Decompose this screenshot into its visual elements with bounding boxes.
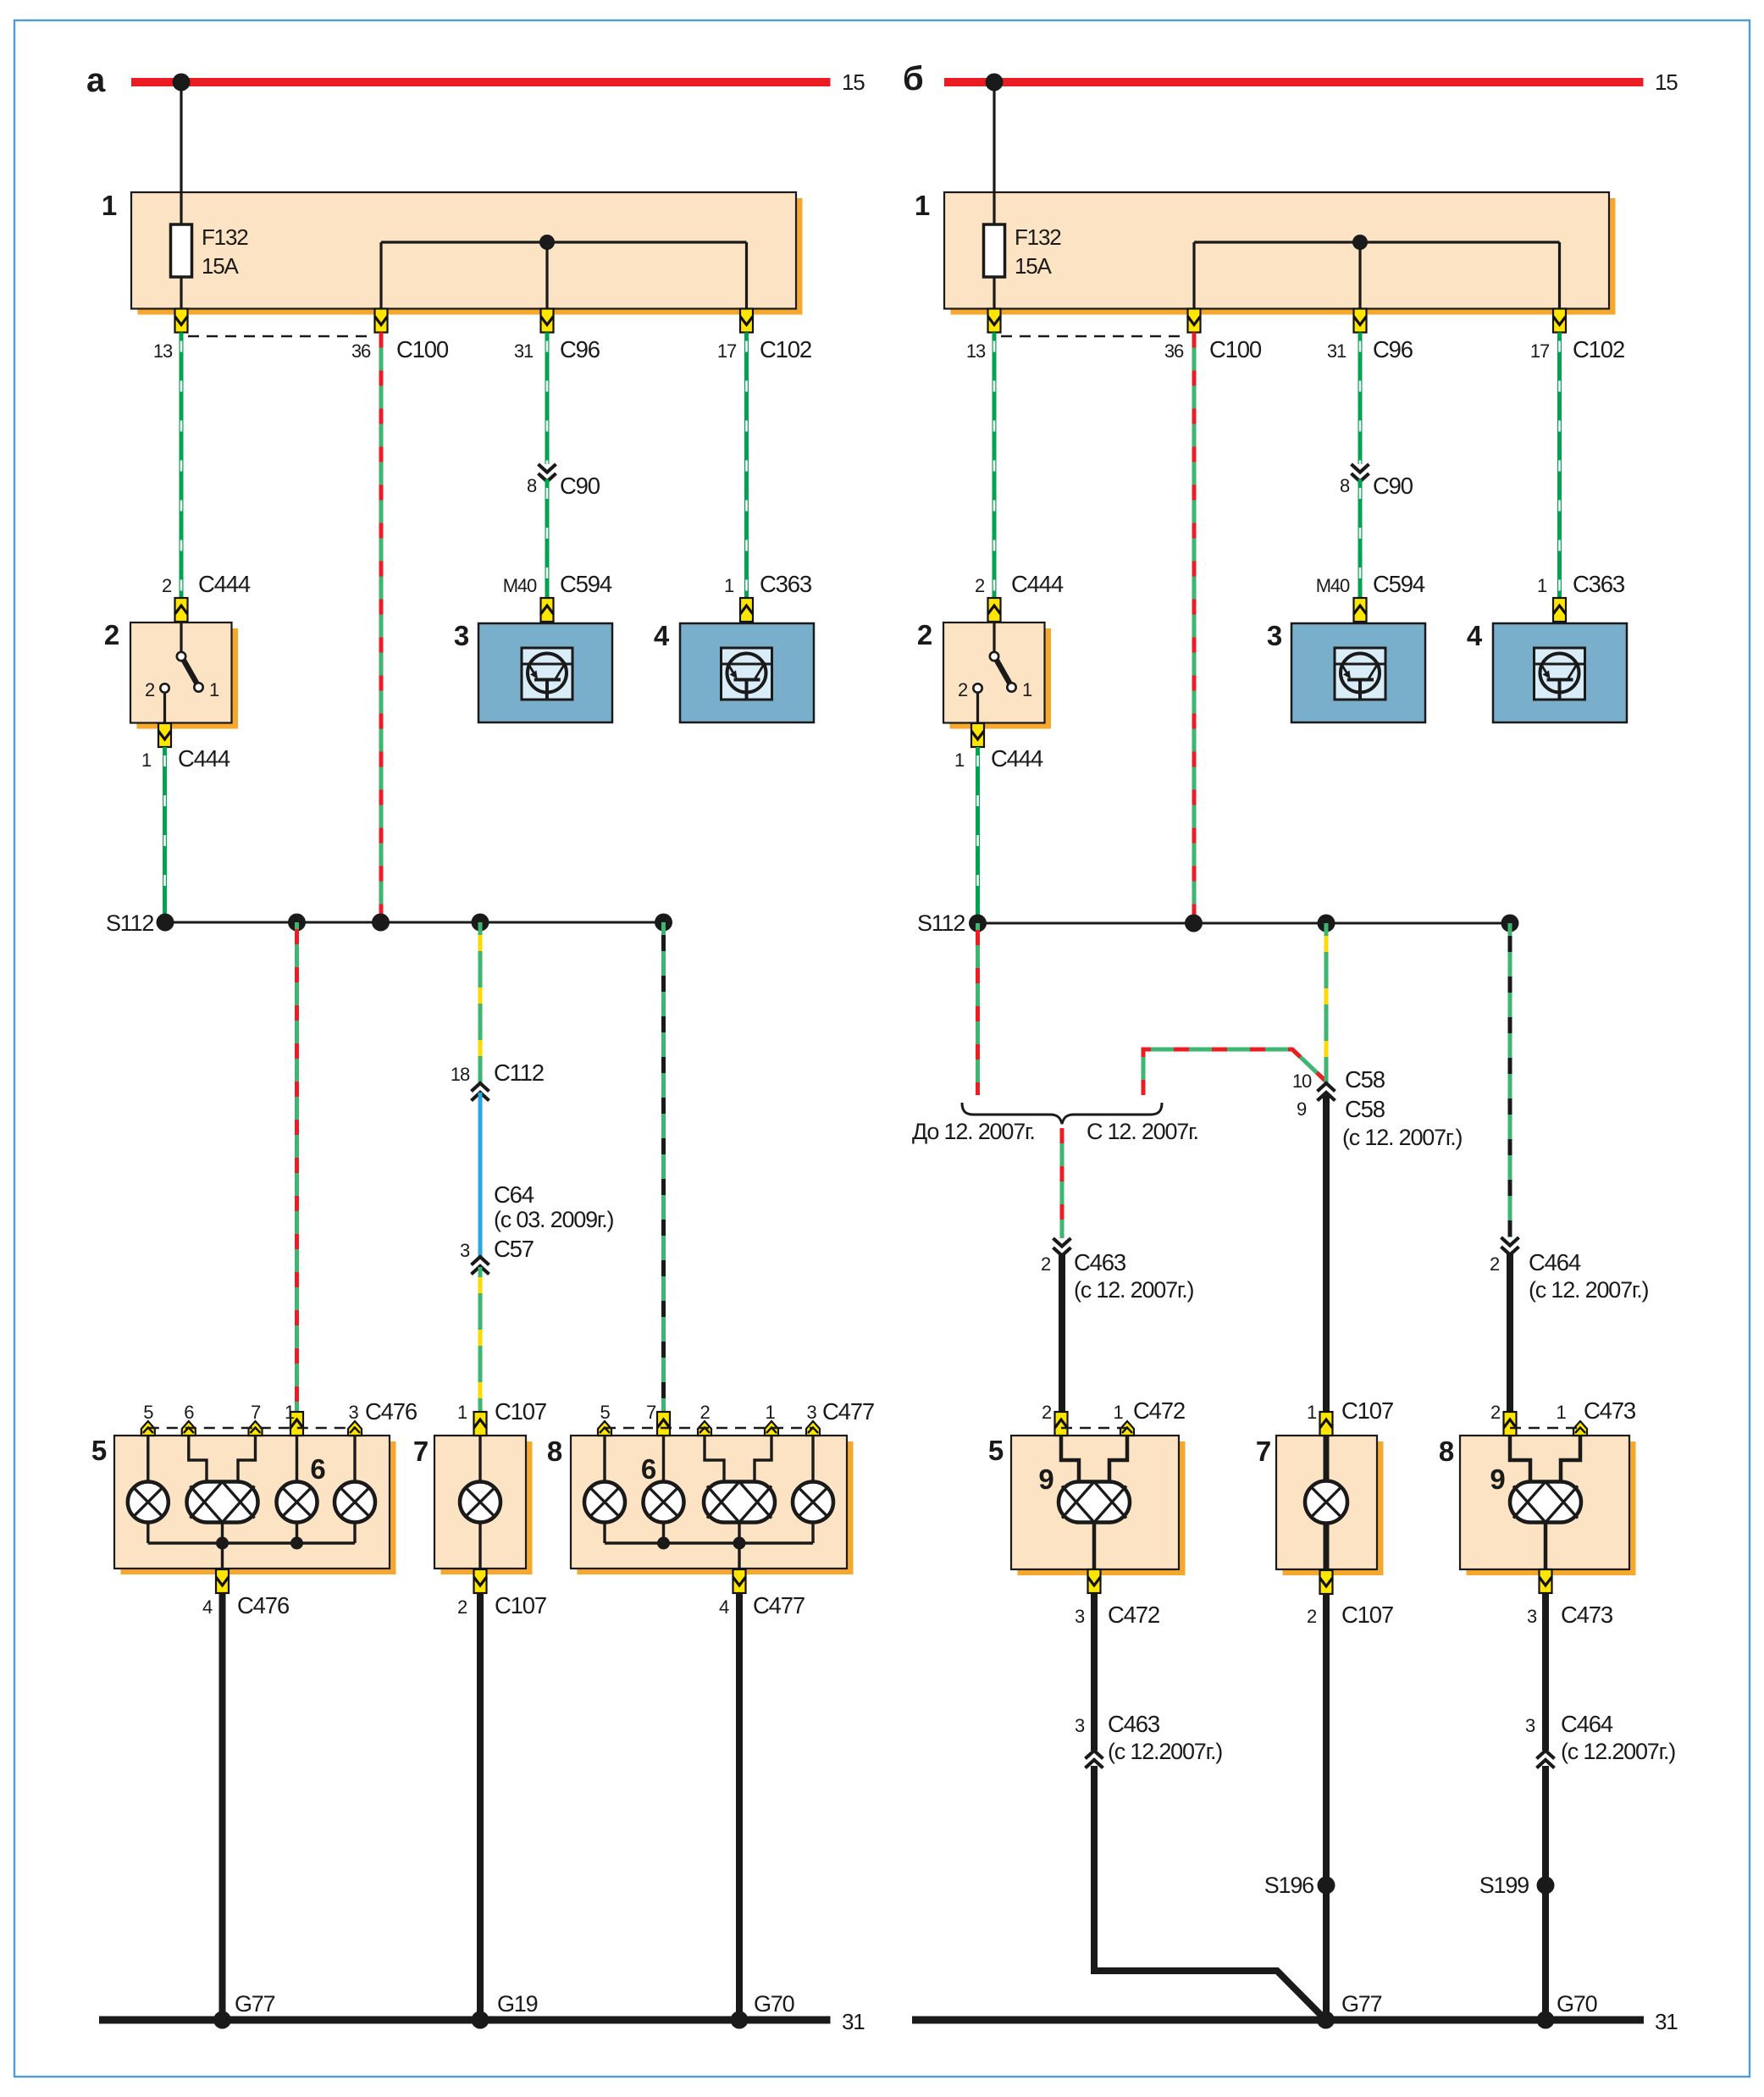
svg-text:4: 4 bbox=[719, 1596, 729, 1618]
svg-text:C58: C58 bbox=[1345, 1066, 1385, 1093]
pin 3 connector C473 bottom (b) bbox=[1527, 1569, 1613, 1628]
wire green/red S112 down pre-12.2007 (b) bbox=[976, 923, 980, 1095]
twin filament lamp 9 of box8 (b) bbox=[1490, 1463, 1581, 1523]
svg-text:S199: S199 bbox=[1479, 1873, 1529, 1898]
svg-text:3: 3 bbox=[806, 1402, 816, 1423]
svg-text:8: 8 bbox=[527, 475, 537, 496]
svg-text:7: 7 bbox=[251, 1402, 261, 1423]
svg-text:4: 4 bbox=[1467, 620, 1483, 651]
pin 1 connector C476 of box5 (a) bbox=[285, 1398, 417, 1436]
svg-text:17: 17 bbox=[1530, 340, 1550, 362]
fuse F132 15A (б) bbox=[984, 193, 1062, 308]
pin 13 connector (б) bbox=[966, 309, 1001, 362]
svg-text:3: 3 bbox=[1075, 1715, 1085, 1736]
wire green/red pin36 to S112 (а) bbox=[379, 333, 384, 923]
svg-text:31: 31 bbox=[1327, 340, 1347, 362]
connector 1 C444 lower (а) bbox=[141, 723, 230, 772]
svg-text:3: 3 bbox=[1525, 1715, 1535, 1736]
svg-text:C476: C476 bbox=[365, 1398, 417, 1425]
svg-text:1: 1 bbox=[1022, 679, 1032, 700]
svg-text:а: а bbox=[86, 62, 106, 99]
svg-text:C477: C477 bbox=[822, 1398, 874, 1425]
svg-text:1: 1 bbox=[457, 1402, 467, 1423]
svg-text:2: 2 bbox=[1307, 1606, 1317, 1627]
wire green/white pin13 to C444 (б) bbox=[993, 333, 997, 599]
svg-text:36: 36 bbox=[351, 340, 371, 362]
svg-text:18: 18 bbox=[451, 1064, 470, 1085]
svg-text:C476: C476 bbox=[237, 1592, 290, 1618]
svg-text:3: 3 bbox=[1267, 620, 1282, 651]
svg-text:C594: C594 bbox=[560, 571, 612, 597]
svg-text:(с 12. 2007г.): (с 12. 2007г.) bbox=[1529, 1277, 1649, 1303]
svg-text:4: 4 bbox=[654, 620, 670, 651]
twin filament lamp 6 of box5 (a) bbox=[187, 1453, 326, 1523]
svg-text:6: 6 bbox=[641, 1453, 656, 1485]
svg-text:2: 2 bbox=[975, 575, 985, 596]
svg-text:2: 2 bbox=[1042, 1402, 1052, 1423]
svg-text:1: 1 bbox=[1307, 1402, 1317, 1423]
ground wire to G70 (a) bbox=[736, 1593, 743, 2020]
junction S112-2 (a) bbox=[288, 914, 306, 932]
svg-text:5: 5 bbox=[988, 1435, 1004, 1466]
pin 2 connector C107 bottom (b) bbox=[1307, 1570, 1393, 1628]
svg-text:8: 8 bbox=[547, 1436, 562, 1467]
connector 1 C363 (б) bbox=[1537, 571, 1625, 622]
junction S112-1 (a) bbox=[157, 914, 174, 932]
rear lamp unit box 8 (a) bbox=[547, 1436, 854, 1574]
svg-text:F132: F132 bbox=[202, 224, 248, 250]
svg-text:31: 31 bbox=[514, 340, 534, 362]
svg-text:F132: F132 bbox=[1015, 224, 1061, 250]
svg-text:(с 03. 2009г.): (с 03. 2009г.) bbox=[494, 1207, 614, 1232]
bus 31 (b) bbox=[912, 2009, 1678, 2034]
svg-text:2: 2 bbox=[958, 679, 968, 700]
junction S112-3 (a) bbox=[372, 914, 390, 932]
svg-text:31: 31 bbox=[842, 2009, 865, 2034]
svg-text:1: 1 bbox=[209, 679, 219, 700]
ground wire box5 to G77 lower bend (b) bbox=[1094, 1766, 1326, 2020]
connector 2 C444 (б) bbox=[975, 571, 1064, 622]
inline connector 18 C112 (a) bbox=[451, 1060, 544, 1101]
lamp control module box 4 (б) bbox=[1467, 620, 1627, 722]
pin 2 connector C107 bottom (a) bbox=[457, 1569, 546, 1618]
svg-text:3: 3 bbox=[1075, 1606, 1085, 1627]
wire green/red L-shape from-12.2007 (b) bbox=[1143, 1049, 1326, 1095]
svg-text:6: 6 bbox=[310, 1453, 325, 1485]
pin 5 of box8 (a) bbox=[598, 1402, 611, 1436]
svg-text:C363: C363 bbox=[1573, 571, 1625, 597]
transistor symbol box 3 (б) bbox=[1335, 648, 1385, 700]
svg-text:C107: C107 bbox=[495, 1592, 546, 1618]
node S112 (b) bbox=[917, 910, 1510, 936]
inline connector 3 C464 lower (b) bbox=[1525, 1711, 1675, 1768]
svg-text:(с 12.2007г.): (с 12.2007г.) bbox=[1561, 1739, 1675, 1764]
ground G19 (a) bbox=[472, 1991, 538, 2029]
pin 4 connector C477 bottom (a) bbox=[719, 1569, 805, 1618]
twin filament lamp 9 of box5 (b) bbox=[1038, 1463, 1130, 1523]
switch symbol in box 2 (а) bbox=[145, 622, 219, 722]
junction S199 (b) bbox=[1479, 1873, 1555, 1898]
svg-text:7: 7 bbox=[1256, 1436, 1270, 1467]
svg-text:C107: C107 bbox=[495, 1398, 546, 1425]
wire green/white C444 to S112 (б) bbox=[976, 747, 980, 923]
wire green/yellow S112 to C112 (a) bbox=[478, 922, 483, 1083]
internal wires box8 (b) bbox=[1510, 1436, 1580, 1569]
internal wires box8 (a) bbox=[605, 1436, 813, 1569]
svg-text:13: 13 bbox=[153, 340, 173, 362]
svg-text:G19: G19 bbox=[497, 1991, 538, 2017]
svg-text:C444: C444 bbox=[178, 745, 230, 772]
connector 2 C444 (а) bbox=[162, 571, 251, 622]
switch box 2 (а) bbox=[104, 619, 238, 729]
svg-text:C464: C464 bbox=[1561, 1711, 1613, 1737]
svg-text:2: 2 bbox=[162, 575, 172, 596]
svg-text:8: 8 bbox=[1439, 1436, 1454, 1467]
ground wire box8 to G70 upper segment (b) bbox=[1542, 1593, 1549, 1751]
svg-text:C463: C463 bbox=[1108, 1711, 1160, 1737]
svg-text:C96: C96 bbox=[1373, 336, 1413, 362]
wire green/yellow C57 to box7 pin1 (a) bbox=[478, 1267, 483, 1412]
lamp control module box 4 (а) bbox=[654, 620, 814, 722]
svg-text:C102: C102 bbox=[1573, 336, 1624, 362]
svg-text:1: 1 bbox=[724, 575, 734, 596]
inline connector 8 C90 (а) bbox=[527, 464, 600, 499]
svg-text:2: 2 bbox=[700, 1402, 710, 1423]
junction on bus 15 (а) bbox=[173, 74, 191, 91]
pin 7 connector of box8 (a) bbox=[646, 1402, 670, 1436]
wire green/white pin17 to C363 (а) bbox=[744, 333, 749, 599]
svg-text:С 12. 2007г.: С 12. 2007г. bbox=[1087, 1119, 1198, 1144]
svg-text:G70: G70 bbox=[754, 1991, 794, 2017]
svg-text:15: 15 bbox=[842, 69, 865, 95]
svg-text:1: 1 bbox=[285, 1402, 295, 1423]
junction S112-5 (a) bbox=[655, 914, 672, 932]
internal wires box5 (a) bbox=[148, 1436, 355, 1569]
ground G70 (b) bbox=[1537, 1991, 1597, 2029]
svg-text:7: 7 bbox=[646, 1402, 656, 1423]
rear lamp unit box 5 (a) bbox=[91, 1435, 396, 1574]
wire green/black S112 to C464 (b) bbox=[1508, 923, 1512, 1237]
svg-text:3: 3 bbox=[348, 1402, 358, 1423]
lamp control module box 3 (б) bbox=[1267, 620, 1425, 722]
ground wire to G19 (a) bbox=[477, 1593, 484, 2020]
svg-text:C477: C477 bbox=[753, 1592, 805, 1618]
svg-text:S112: S112 bbox=[917, 910, 965, 936]
lamp of box7 (a) bbox=[460, 1482, 500, 1523]
pin 17 connector C102 (б) bbox=[1530, 309, 1624, 363]
pin 7 of box5 (a) bbox=[249, 1402, 263, 1436]
internal bus wire in box 1 (а) bbox=[381, 242, 747, 308]
rear lamp unit box 5 (b) bbox=[988, 1435, 1186, 1575]
svg-text:5: 5 bbox=[600, 1402, 610, 1423]
junction in box8 right (a) bbox=[733, 1537, 746, 1550]
junction inside box 1 (б) bbox=[1352, 235, 1368, 250]
ground G77 (b) bbox=[1317, 1991, 1382, 2029]
license plate lamp box 7 (a) bbox=[413, 1436, 533, 1574]
svg-text:9: 9 bbox=[1297, 1098, 1307, 1120]
svg-text:2: 2 bbox=[1490, 1253, 1500, 1275]
junction S196 (b) bbox=[1264, 1873, 1335, 1898]
transistor symbol box 3 (а) bbox=[522, 648, 572, 700]
svg-text:1: 1 bbox=[765, 1402, 775, 1423]
wire black C463 to box5 pin2 (b) bbox=[1059, 1254, 1065, 1412]
wire green/white pin31 to C90 (а) bbox=[545, 333, 550, 465]
twin filament lamp 6 of box8 (a) bbox=[641, 1453, 775, 1523]
connector 1 C363 (а) bbox=[724, 571, 812, 622]
svg-text:C444: C444 bbox=[991, 745, 1043, 772]
svg-text:2: 2 bbox=[457, 1596, 467, 1618]
junction in box8 left (a) bbox=[657, 1537, 670, 1550]
central electronic module box 1 (б) bbox=[915, 190, 1616, 315]
wire green/white pin31 to C90 (б) bbox=[1358, 333, 1363, 465]
svg-text:17: 17 bbox=[717, 340, 737, 362]
svg-text:M40: M40 bbox=[1316, 575, 1350, 596]
svg-text:C472: C472 bbox=[1108, 1602, 1159, 1628]
dashed link pin13-pin36 (б) bbox=[1001, 335, 1187, 337]
junction S112-1 (b) bbox=[969, 915, 987, 932]
lamp 5 of box8 (a) bbox=[584, 1482, 625, 1523]
pin 1 of box5 (b) bbox=[1113, 1402, 1134, 1436]
svg-text:9: 9 bbox=[1038, 1463, 1053, 1495]
junction in box5 right (a) bbox=[290, 1537, 303, 1550]
internal bus wire in box 1 (б) bbox=[1194, 242, 1560, 308]
svg-text:3: 3 bbox=[460, 1240, 470, 1261]
svg-text:б: б bbox=[903, 60, 923, 97]
wire green/white pin17 to C363 (б) bbox=[1557, 333, 1562, 599]
dashed pin link box5 (a) bbox=[148, 1427, 355, 1429]
wire green/yellow S112 to C58 (b) bbox=[1324, 923, 1329, 1083]
svg-text:13: 13 bbox=[966, 340, 986, 362]
connector M40 C594 (а) bbox=[503, 571, 612, 622]
svg-text:C96: C96 bbox=[560, 336, 600, 362]
switch symbol in box 2 (б) bbox=[958, 622, 1032, 722]
svg-text:10: 10 bbox=[1292, 1071, 1312, 1092]
pin 3 of box5 (a) bbox=[348, 1402, 362, 1436]
ground wire to G77 (a) bbox=[219, 1593, 226, 2020]
ground wire box8 to G70 lower segment (b) bbox=[1542, 1766, 1549, 2020]
wire green/red brace to C463 (b) bbox=[1060, 1128, 1064, 1238]
internal wires box5 (b) bbox=[1061, 1436, 1127, 1569]
svg-text:C444: C444 bbox=[198, 571, 251, 597]
wire green/red S112 to box5 pin1 (a) bbox=[295, 922, 299, 1412]
license plate lamp box 7 (b) bbox=[1256, 1436, 1384, 1575]
svg-text:C100: C100 bbox=[396, 336, 449, 362]
svg-text:G77: G77 bbox=[235, 1991, 275, 2017]
junction S112-2 (b) bbox=[1185, 915, 1203, 932]
wire black C464 to box8 pin2 (b) bbox=[1507, 1253, 1513, 1412]
svg-text:1: 1 bbox=[915, 190, 930, 221]
fuse F132 15A (а) bbox=[171, 193, 249, 308]
svg-text:C594: C594 bbox=[1373, 571, 1425, 597]
pin 31 connector C96 (б) bbox=[1327, 309, 1413, 363]
internal wire box7 (a) bbox=[478, 1436, 481, 1569]
svg-text:C58: C58 bbox=[1345, 1096, 1385, 1122]
ground wire box7 to G77 (b) bbox=[1323, 1594, 1330, 2020]
svg-text:M40: M40 bbox=[503, 575, 537, 596]
svg-text:15: 15 bbox=[1655, 69, 1678, 95]
svg-text:15A: 15A bbox=[202, 253, 240, 279]
svg-text:1: 1 bbox=[102, 190, 117, 221]
wire green/white pin13 to C444 (а) bbox=[180, 333, 184, 599]
svg-text:1: 1 bbox=[1113, 1402, 1123, 1423]
svg-text:(с 12. 2007г.): (с 12. 2007г.) bbox=[1342, 1125, 1463, 1150]
pin 1 of box8 (a) bbox=[765, 1402, 778, 1436]
node S112 (a) bbox=[106, 910, 664, 936]
junction S112-4 (a) bbox=[472, 914, 489, 932]
svg-text:5: 5 bbox=[143, 1402, 153, 1423]
svg-text:C107: C107 bbox=[1341, 1397, 1393, 1424]
svg-text:C473: C473 bbox=[1584, 1397, 1636, 1424]
inline connector 2 C464 (b) bbox=[1490, 1237, 1649, 1303]
dashed pin link box8 (a) bbox=[605, 1427, 813, 1429]
svg-text:1: 1 bbox=[1556, 1402, 1566, 1423]
pin 36 connector C100 (б) bbox=[1164, 309, 1262, 363]
svg-text:9: 9 bbox=[1490, 1463, 1505, 1495]
svg-text:До 12. 2007г.: До 12. 2007г. bbox=[912, 1119, 1035, 1144]
svg-text:2: 2 bbox=[1041, 1253, 1051, 1275]
svg-text:C90: C90 bbox=[560, 473, 600, 499]
wire bus15 to fuse box (б) bbox=[993, 82, 995, 193]
pin 5 of box5 (a) bbox=[141, 1402, 155, 1436]
wire blue C64 (a) bbox=[480, 1093, 614, 1257]
svg-text:C90: C90 bbox=[1373, 473, 1413, 499]
svg-text:2: 2 bbox=[917, 619, 932, 650]
svg-text:C444: C444 bbox=[1011, 571, 1064, 597]
svg-text:C463: C463 bbox=[1074, 1249, 1126, 1275]
wire green/white C90 to C594 (а) bbox=[545, 479, 550, 598]
lamp 7 of box8 (a) bbox=[644, 1482, 684, 1523]
dashed pin link box5 (b) bbox=[1061, 1427, 1127, 1429]
svg-text:2: 2 bbox=[145, 679, 155, 700]
label С 12. 2007г. (b) bbox=[1087, 1119, 1198, 1144]
svg-text:C112: C112 bbox=[494, 1060, 544, 1086]
inline connector 3 C463 lower (b) bbox=[1075, 1711, 1222, 1768]
pin 4 connector C476 bottom (a) bbox=[202, 1569, 290, 1618]
inline connector 3 C57 (a) bbox=[460, 1236, 534, 1275]
pin 2 connector C473 of box8 (b) bbox=[1490, 1402, 1517, 1436]
ground G77 (a) bbox=[213, 1991, 275, 2029]
svg-text:G70: G70 bbox=[1557, 1991, 1597, 2017]
svg-text:1: 1 bbox=[954, 750, 965, 771]
pin 2 of box8 (a) bbox=[698, 1402, 711, 1436]
svg-text:C472: C472 bbox=[1133, 1397, 1185, 1424]
connector 1 C444 lower (б) bbox=[954, 723, 1043, 772]
wire green/red pin36 to S112 (б) bbox=[1192, 333, 1197, 923]
bus 15 (б) bbox=[944, 69, 1678, 95]
junction S112-4 (b) bbox=[1501, 915, 1519, 932]
wire green/white C90 to C594 (б) bbox=[1358, 479, 1363, 598]
connector M40 C594 (б) bbox=[1316, 571, 1425, 622]
svg-text:(с 12.2007г.): (с 12.2007г.) bbox=[1108, 1739, 1222, 1764]
svg-text:5: 5 bbox=[91, 1435, 107, 1466]
pin 6 of box5 (a) bbox=[182, 1402, 196, 1436]
svg-text:C64: C64 bbox=[494, 1181, 534, 1208]
svg-text:6: 6 bbox=[184, 1402, 194, 1423]
switch box 2 (б) bbox=[917, 619, 1051, 729]
wire green/white C444 to S112 (а) bbox=[163, 747, 167, 923]
svg-text:C363: C363 bbox=[760, 571, 812, 597]
central electronic module box 1 (а) bbox=[102, 190, 803, 315]
svg-text:31: 31 bbox=[1655, 2009, 1678, 2034]
ground G70 (a) bbox=[731, 1991, 794, 2029]
pin 13 connector (а) bbox=[153, 309, 188, 362]
wire bus15 to fuse box (а) bbox=[180, 82, 182, 193]
svg-text:15A: 15A bbox=[1015, 253, 1053, 279]
svg-text:8: 8 bbox=[1340, 475, 1350, 496]
wire black C58 to box7 pin1 (b) bbox=[1323, 1095, 1330, 1412]
svg-text:C464: C464 bbox=[1529, 1249, 1581, 1275]
lamp control module box 3 (а) bbox=[454, 620, 612, 722]
lamp of box7 (b) bbox=[1305, 1481, 1347, 1524]
pin 2 connector C472 of box5 (b) bbox=[1042, 1397, 1185, 1436]
svg-text:S196: S196 bbox=[1264, 1873, 1313, 1898]
svg-text:C102: C102 bbox=[760, 336, 811, 362]
inline connector 10/9 C58 (b) bbox=[1292, 1066, 1463, 1150]
svg-text:3: 3 bbox=[454, 620, 469, 651]
dashed pin link box8 (b) bbox=[1510, 1427, 1580, 1429]
transistor symbol box 4 (б) bbox=[1535, 648, 1585, 700]
junction on bus 15 (б) bbox=[986, 74, 1004, 91]
pin 1 connector C107 of box7 (b) bbox=[1307, 1397, 1393, 1436]
svg-text:2: 2 bbox=[1490, 1402, 1501, 1423]
pin 3 connector C477 of box8 (a) bbox=[806, 1398, 874, 1436]
svg-text:2: 2 bbox=[104, 619, 119, 650]
inline connector 2 C463 (b) bbox=[1041, 1238, 1194, 1303]
wire green/black S112 to box8 pin7 (a) bbox=[661, 922, 666, 1412]
pin 31 connector C96 (а) bbox=[514, 309, 600, 363]
bus 31 (a) bbox=[99, 2009, 865, 2034]
lamp 1 of box5 (a) bbox=[128, 1482, 169, 1523]
junction in box5 left (a) bbox=[216, 1537, 229, 1550]
label а (section marker) bbox=[86, 62, 106, 99]
svg-text:36: 36 bbox=[1164, 340, 1184, 362]
svg-text:C100: C100 bbox=[1209, 336, 1262, 362]
svg-text:3: 3 bbox=[1527, 1606, 1537, 1627]
junction S112-3 (b) bbox=[1318, 915, 1335, 932]
internal wire box7 (b) bbox=[1324, 1436, 1330, 1570]
lamp 3 of box5 (a) bbox=[277, 1482, 318, 1523]
svg-text:G77: G77 bbox=[1341, 1991, 1382, 2017]
svg-text:C107: C107 bbox=[1341, 1602, 1393, 1628]
svg-text:(с 12. 2007г.): (с 12. 2007г.) bbox=[1074, 1277, 1194, 1303]
lamp 4 of box5 (a) bbox=[335, 1482, 375, 1523]
svg-text:C473: C473 bbox=[1561, 1602, 1613, 1628]
label До 12. 2007г. (b) bbox=[912, 1119, 1035, 1144]
svg-text:4: 4 bbox=[202, 1596, 213, 1618]
junction inside box 1 (а) bbox=[539, 235, 555, 250]
pin 3 connector C472 bottom (b) bbox=[1075, 1569, 1159, 1628]
svg-text:1: 1 bbox=[141, 750, 152, 771]
inline connector 8 C90 (б) bbox=[1340, 464, 1413, 499]
label б (section marker) bbox=[903, 60, 923, 97]
dashed link pin13-pin36 (а) bbox=[188, 335, 374, 337]
rear lamp unit box 8 (b) bbox=[1439, 1436, 1636, 1575]
lamp 3 of box8 (a) bbox=[793, 1482, 833, 1523]
transistor symbol box 4 (а) bbox=[722, 648, 772, 700]
svg-text:S112: S112 bbox=[106, 910, 153, 936]
bus 15 (а) bbox=[131, 69, 865, 95]
svg-text:C57: C57 bbox=[494, 1236, 534, 1262]
ground wire box5 to G77 upper segment (b) bbox=[1091, 1593, 1098, 1751]
pin 1 of box8 (b) bbox=[1556, 1397, 1635, 1436]
svg-text:1: 1 bbox=[1537, 575, 1547, 596]
pin 17 connector C102 (а) bbox=[717, 309, 811, 363]
pin 1 connector C107 of box7 (a) bbox=[457, 1398, 546, 1436]
svg-text:7: 7 bbox=[413, 1436, 428, 1467]
brace grouping alternative wires (b) bbox=[962, 1103, 1162, 1124]
pin 36 connector C100 (а) bbox=[351, 309, 449, 363]
